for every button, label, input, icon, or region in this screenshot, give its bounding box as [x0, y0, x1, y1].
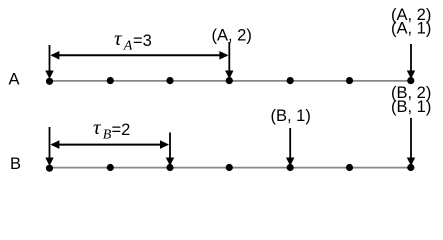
down arrow at first B event [45, 127, 53, 166]
down arrow at first A event [45, 45, 53, 79]
down arrow at last B event [407, 118, 415, 166]
measure arrow tau_A span [50, 51, 228, 60]
measure arrow tau_B span [50, 140, 169, 149]
down arrow at last A event [407, 44, 415, 79]
down arrow at tau_B right end [166, 133, 174, 167]
timeline A axis line [49, 80, 412, 82]
down arrow at (B,1) event [286, 128, 294, 166]
svg-text:A: A [9, 71, 20, 89]
svg-text:=3: =3 [133, 32, 152, 50]
svg-text:B: B [10, 155, 21, 173]
svg-text:B: B [103, 128, 112, 143]
down arrow at (A,2) event [225, 42, 233, 79]
svg-text:(B, 1): (B, 1) [391, 98, 431, 116]
svg-text:τ: τ [114, 26, 123, 50]
svg-text:(A, 2): (A, 2) [212, 27, 252, 45]
label tau_B=2 [93, 115, 130, 143]
svg-text:τ: τ [93, 115, 102, 139]
timeline B axis line [49, 167, 412, 169]
svg-text:(B, 1): (B, 1) [271, 107, 311, 125]
label tau_A=3 [114, 26, 152, 54]
svg-text:=2: =2 [112, 121, 131, 139]
timeline A dots [46, 77, 415, 85]
svg-text:A: A [123, 39, 133, 54]
timeline B dots [46, 164, 415, 172]
svg-text:(A, 1): (A, 1) [391, 20, 431, 38]
